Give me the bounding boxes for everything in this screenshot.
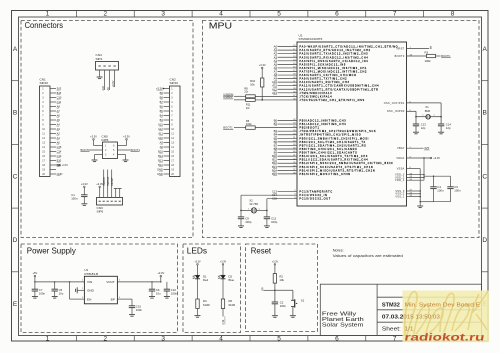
svg-text:+3.3V: +3.3V	[272, 260, 279, 263]
wire CN5 pin4	[124, 155, 126, 160]
svg-text:Min. System Dev Board E: Min. System Dev Board E	[405, 302, 481, 308]
wire VDDA to +3.3V flag	[407, 156, 441, 160]
svg-text:+3.3V: +3.3V	[111, 80, 115, 87]
svg-text:OSC_IN/PD0: OSC_IN/PD0	[387, 110, 405, 113]
svg-text:B14: B14	[158, 154, 163, 158]
svg-text:5: 5	[277, 11, 281, 18]
node +3.3V at CN2 pin 1	[163, 88, 165, 90]
wire CN3 pin4 net SWDIO2	[110, 170, 114, 198]
svg-text:2: 2	[259, 208, 260, 210]
svg-text:PB6/I2C1_SCL/TIM4_CH1/USART1_T: PB6/I2C1_SCL/TIM4_CH1/USART1_TX	[299, 141, 366, 144]
column number labels	[46, 11, 455, 343]
svg-text:VOUT: VOUT	[106, 280, 115, 284]
svg-text:10k: 10k	[250, 83, 255, 87]
svg-text:JTCK/SWCLK/PA14: JTCK/SWCLK/PA14	[299, 95, 332, 98]
svg-text:A8: A8	[160, 145, 164, 149]
svg-text:32.768: 32.768	[249, 202, 258, 206]
svg-text:12p: 12p	[446, 126, 451, 130]
wires VSS pins to ground rail	[407, 190, 421, 197]
power flag +3.3V above D1	[194, 260, 201, 275]
connector CN4 SIP4	[96, 53, 119, 70]
wire CN3 pin3 net SWCLK	[106, 170, 110, 198]
svg-text:C: C	[482, 174, 487, 181]
svg-text:A13: A13	[272, 91, 277, 95]
svg-text:PB11/I2C2_SDA/USART3_RX/TIM2_C: PB11/I2C2_SDA/USART3_RX/TIM2_CH4	[299, 159, 368, 162]
svg-text:PC15/OSC32_OUT: PC15/OSC32_OUT	[299, 198, 331, 201]
svg-text:A10: A10	[158, 136, 163, 140]
svg-text:PA12/USART1_RTS/CANTX/USBDP/TI: PA12/USART1_RTS/CANTX/USBDP/TIM1_ETR	[299, 88, 378, 91]
U2 port-C pin rows	[294, 190, 333, 200]
junction R10 to USBDP wire	[261, 99, 263, 101]
svg-text:PA5/SPI1_SCK/ADC12_IN5: PA5/SPI1_SCK/ADC12_IN5	[299, 63, 346, 66]
wire U1 EN to +5V rail	[70, 282, 85, 299]
svg-text:22r: 22r	[244, 90, 248, 94]
svg-text:PB5/I2C1_SMBAI/TIM3_CH2/SPI1_M: PB5/I2C1_SMBAI/TIM3_CH2/SPI1_MOSI	[299, 137, 369, 140]
svg-text:100n: 100n	[39, 291, 46, 295]
svg-text:A0: A0	[57, 141, 61, 145]
net label BOOT1 at CN5	[124, 148, 141, 152]
capacitor C14 12p	[438, 117, 451, 132]
title block document title	[382, 302, 481, 308]
row letter labels	[13, 46, 488, 308]
crystal X1 8M0	[416, 105, 441, 119]
svg-text:C13: C13	[221, 319, 225, 324]
svg-text:GND: GND	[157, 172, 163, 176]
svg-text:JTMS/SWDIO/PA13: JTMS/SWDIO/PA13	[299, 92, 332, 95]
wire VBAT net 3V6	[407, 146, 430, 150]
ground below C10	[164, 297, 170, 299]
svg-text:Notes:: Notes:	[333, 248, 344, 253]
net label USBDP	[223, 95, 233, 99]
wire NRST net R	[407, 45, 432, 49]
resistor R11 22r	[234, 98, 255, 109]
title block sheet	[382, 327, 414, 333]
capacitor C6 100n	[447, 176, 461, 202]
svg-text:VSS_1: VSS_1	[395, 196, 405, 199]
power flag +3.3V right of CN5	[123, 134, 130, 145]
svg-text:PB7/I2C1_SDA/TIM4_CH2/USART1_R: PB7/I2C1_SDA/TIM4_CH2/USART1_RX	[299, 144, 366, 147]
svg-text:R: R	[430, 45, 432, 49]
Power Supply section box	[21, 244, 178, 333]
svg-text:SWCLK: SWCLK	[106, 177, 110, 186]
svg-text:+3.3V: +3.3V	[157, 271, 164, 275]
ground below C6b	[149, 297, 155, 299]
ground below R4	[195, 316, 201, 318]
svg-text:B12: B12	[158, 163, 163, 167]
svg-text:MPU: MPU	[209, 22, 232, 31]
capacitor C12 100p	[264, 210, 278, 225]
svg-text:3V6: 3V6	[424, 146, 429, 150]
svg-text:Reset: Reset	[251, 246, 272, 256]
ground below C1	[81, 204, 87, 206]
net label BOOT1	[223, 126, 233, 130]
capacitor C5 10u	[52, 282, 64, 296]
svg-text:+3.3V: +3.3V	[194, 260, 201, 263]
svg-text:PB13/SPI2_SCK/USART3_CTS/TIM1_: PB13/SPI2_SCK/USART3_CTS/TIM1_CH1N	[299, 166, 373, 169]
svg-text:100n: 100n	[171, 291, 178, 295]
connector CN3 SIP6	[97, 198, 123, 214]
wire CN4 pin1 to ground	[99, 70, 101, 77]
connector CN1 SIP20	[40, 78, 63, 177]
svg-text:Values of capacitors are estim: Values of capacitors are estimated	[333, 253, 403, 258]
wire reset node to S1	[275, 290, 293, 300]
wire VDD rail to decoupling caps	[424, 176, 451, 177]
capacitor C9 100p	[238, 210, 252, 225]
svg-text:PB1/ADC12_IN9/TIM3_CH4: PB1/ADC12_IN9/TIM3_CH4	[299, 123, 346, 126]
resistor R2 10k	[273, 274, 284, 291]
svg-text:12p: 12p	[421, 126, 426, 130]
watermark logo strokes	[405, 291, 488, 335]
title block project name	[322, 311, 364, 328]
svg-text:100p: 100p	[245, 220, 252, 224]
svg-text:6: 6	[335, 11, 339, 18]
svg-text:BP: BP	[111, 298, 115, 302]
wire OSC_OUT to X1 right	[407, 103, 442, 117]
svg-text:STM32: STM32	[382, 302, 400, 308]
svg-text:A: A	[13, 46, 18, 53]
wire caps to ground rail	[420, 201, 451, 202]
title block date	[382, 315, 440, 321]
svg-text:B15: B15	[272, 172, 277, 176]
wire U1 BP to C15	[117, 299, 132, 306]
wire CN4 pin2 net A10	[101, 70, 105, 91]
svg-text:B: B	[483, 110, 487, 117]
svg-text:RT8183-B: RT8183-B	[84, 272, 98, 276]
svg-text:PA8/USART1_CK/TIM1_CH1/MCO: PA8/USART1_CK/TIM1_CH1/MCO	[299, 74, 356, 77]
wire PC15 to X2 right	[267, 197, 297, 211]
svg-text:PB10/I2C2_SCL/USART3_TX/TIM2_C: PB10/I2C2_SCL/USART3_TX/TIM2_CH3	[299, 155, 368, 158]
power flag +5V input	[33, 271, 38, 289]
svg-text:Red: Red	[203, 278, 209, 282]
svg-text:100n: 100n	[454, 188, 461, 192]
svg-text:A: A	[483, 46, 488, 53]
capacitor C2 100n	[272, 290, 287, 315]
wires VDD pins to +3.3V rail	[407, 158, 425, 180]
svg-text:PA2/USART2_TX/ADC12_IN2/TIM2_C: PA2/USART2_TX/ADC12_IN2/TIM2_CH3	[299, 53, 368, 56]
Reset section box	[246, 244, 318, 332]
svg-text:STM32F103C8T6: STM32F103C8T6	[299, 37, 323, 41]
capacitor C6b 10u	[149, 282, 161, 296]
svg-text:VDDA: VDDA	[396, 157, 404, 160]
svg-text:B: B	[13, 110, 17, 117]
ground at U1 GND	[76, 287, 78, 293]
wire VSSA to ground rail	[407, 169, 421, 206]
svg-text:VSSA: VSSA	[397, 168, 405, 171]
net label R at reset node	[262, 286, 275, 290]
svg-text:Blue: Blue	[229, 278, 235, 282]
svg-text:07.03.2: 07.03.2	[382, 315, 404, 321]
wire CN4 pin4 +3.3V	[111, 70, 115, 88]
ground below C13	[413, 132, 419, 134]
svg-text:A9: A9	[160, 141, 164, 145]
power flag +3.3V above R10	[259, 63, 266, 78]
svg-text:A12: A12	[158, 127, 163, 131]
svg-text:100n: 100n	[280, 304, 287, 308]
ground below S1	[290, 316, 296, 318]
svg-text:C15: C15	[57, 145, 62, 149]
LEDs section box	[183, 244, 241, 333]
svg-text:PB14/SPI2_MISO/USART3_RTS/TIM1: PB14/SPI2_MISO/USART3_RTS/TIM1_CH2N	[299, 169, 375, 172]
svg-text:JNTRST/PB4/TIM3_CH1/SPI1_MISO: JNTRST/PB4/TIM3_CH1/SPI1_MISO	[299, 134, 361, 137]
svg-text:8M0: 8M0	[425, 109, 431, 113]
ground below C7	[32, 297, 38, 299]
svg-text:10k: 10k	[279, 278, 284, 282]
LED D2 Blue	[218, 275, 234, 299]
watermark background	[403, 291, 490, 343]
svg-text:D: D	[482, 237, 487, 244]
svg-text:BOOT0: BOOT0	[395, 55, 405, 58]
svg-text:BOOT0: BOOT0	[441, 54, 450, 58]
power arrow +3.3V at CN1 pin 18	[56, 164, 68, 167]
svg-text:10u: 10u	[59, 291, 64, 295]
wire U1 VOUT to +3.3V	[117, 281, 161, 282]
capacitor C1 100n	[71, 193, 87, 204]
svg-text:SWDIO: SWDIO	[102, 177, 106, 186]
svg-text:VBAT: VBAT	[397, 147, 405, 150]
U2 port-A pin rows with wires and net labels	[255, 45, 398, 102]
ground below VSS rail	[417, 206, 423, 208]
svg-text:100n: 100n	[71, 196, 78, 200]
wire OSC_IN to X1 left	[407, 111, 417, 116]
U2 port-B pin rows with wires and net labels	[272, 119, 393, 176]
regulator U1 RT8183-B	[82, 268, 121, 304]
svg-text:EN: EN	[87, 298, 91, 302]
net label C13 below R6	[221, 316, 225, 324]
svg-text:+3.3V: +3.3V	[259, 63, 266, 67]
svg-text:6: 6	[335, 336, 339, 343]
svg-text:GND: GND	[157, 168, 163, 172]
svg-text:PB15/SPI2_MOSI/TIM1_CH3N: PB15/SPI2_MOSI/TIM1_CH3N	[299, 173, 350, 176]
svg-text:BOOT1: BOOT1	[223, 126, 233, 130]
svg-text:radiokot.ru: radiokot.ru	[404, 332, 486, 343]
svg-text:E: E	[13, 301, 18, 308]
wire CN4 pin3 net A9	[106, 70, 110, 91]
svg-text:610R: 610R	[229, 303, 236, 307]
net label BOOT0 at CN5	[81, 148, 97, 152]
svg-text:1: 1	[46, 336, 50, 343]
svg-text:100n: 100n	[437, 188, 444, 192]
capacitor C10 100n	[164, 282, 178, 296]
svg-text:PB12/SPI2_NSS/I2C2_SMBAI/USART: PB12/SPI2_NSS/I2C2_SMBAI/USART3_CK/TIM1_…	[299, 162, 393, 165]
svg-text:SIP20: SIP20	[170, 81, 179, 85]
svg-text:4: 4	[219, 336, 223, 343]
svg-text:015 13:50:03: 015 13:50:03	[403, 315, 440, 321]
ground at CN5 pin4	[123, 160, 129, 162]
svg-text:8: 8	[451, 11, 455, 18]
power flag +3.3V above D2	[220, 260, 227, 275]
op IC U2 STM32F103C8T6	[297, 34, 407, 207]
svg-text:GND: GND	[87, 289, 95, 293]
svg-text:B10: B10	[57, 159, 62, 163]
svg-text:100p: 100p	[271, 220, 278, 224]
svg-text:PA10/USART1_RX/TIM1_CH3: PA10/USART1_RX/TIM1_CH3	[299, 81, 349, 84]
connector CN2 SIP20	[156, 78, 180, 177]
svg-text:3: 3	[161, 11, 165, 18]
svg-text:JTDO/PB3/TIM2_CH2/TRACESWO/SPI: JTDO/PB3/TIM2_CH2/TRACESWO/SPI1_SCK	[299, 130, 376, 133]
svg-text:B13: B13	[158, 159, 163, 163]
capacitor C13 12p	[413, 117, 426, 132]
resistor R4 610R	[196, 299, 210, 315]
power flag +3.3V at CN3 pin1	[96, 182, 103, 198]
ground below C9	[238, 226, 244, 228]
svg-text:PA6/SPI1_MISO/ADC12_IN6/TIM3_C: PA6/SPI1_MISO/ADC12_IN6/TIM3_CH1	[299, 67, 367, 70]
svg-text:7: 7	[393, 11, 397, 18]
resistor R5 100k	[234, 119, 297, 130]
row tick marks	[12, 81, 489, 272]
svg-text:GND: GND	[57, 172, 63, 176]
wire U1 GND to ground	[78, 289, 85, 291]
wire PC13 net C13	[272, 190, 297, 194]
wire PC14 to X2 left	[241, 193, 297, 210]
svg-text:Solar System: Solar System	[322, 322, 364, 328]
svg-text:A3: A3	[57, 127, 61, 131]
ground below C2	[272, 316, 278, 318]
svg-text:1: 1	[248, 208, 249, 210]
svg-text:PA0-WKUP/USART2_CTS/ADC12_IN0/: PA0-WKUP/USART2_CTS/ADC12_IN0/TIM2_CH1_E…	[299, 46, 398, 49]
svg-text:+3.3V: +3.3V	[81, 182, 88, 186]
svg-text:C: C	[13, 174, 18, 181]
svg-text:RESET: RESET	[110, 177, 114, 186]
svg-text:R3: R3	[425, 50, 429, 54]
svg-text:A11: A11	[158, 132, 163, 136]
svg-text:+5V: +5V	[33, 271, 38, 275]
LED D1 Red	[193, 275, 209, 299]
MPU section box	[203, 21, 480, 238]
svg-text:S1: S1	[301, 299, 305, 303]
svg-text:10u: 10u	[156, 291, 161, 295]
svg-text:C15: C15	[272, 197, 278, 201]
svg-text:+3.3V: +3.3V	[433, 156, 440, 160]
junction X1 left	[415, 116, 417, 118]
svg-text:100k: 100k	[425, 59, 432, 63]
connector CN5 DIP6	[97, 134, 124, 158]
svg-text:100n: 100n	[136, 308, 143, 312]
svg-text:A10: A10	[101, 85, 105, 90]
U2 right side pin names and numbers	[384, 47, 413, 198]
junction X2 right	[266, 210, 268, 212]
svg-text:610R: 610R	[203, 303, 210, 307]
svg-text:VIN: VIN	[87, 280, 92, 284]
svg-text:JTDI/PA15/TIM2_CH1_ETR/SPI1_NS: JTDI/PA15/TIM2_CH1_ETR/SPI1_NSS	[299, 99, 364, 102]
svg-text:1: 1	[46, 11, 50, 18]
svg-text:SIP6: SIP6	[97, 210, 104, 214]
svg-text:PB9/TIM4_CH4/I2C1_SDA/CANTX: PB9/TIM4_CH4/I2C1_SDA/CANTX	[299, 152, 357, 155]
svg-text:22r: 22r	[246, 106, 250, 110]
svg-text:PB2/BOOT1: PB2/BOOT1	[299, 127, 319, 130]
svg-text:PA11/USART1_CTS/CANRX/USBDM/TI: PA11/USART1_CTS/CANRX/USBDM/TIM1_CH4	[299, 85, 379, 88]
ground at CN4 pin1	[97, 77, 103, 79]
wire CN3 pin2 net SWDIO	[102, 170, 106, 198]
capacitor C4 100n	[430, 176, 444, 202]
svg-text:Connectors: Connectors	[25, 21, 63, 30]
svg-text:VDD_1: VDD_1	[395, 179, 405, 182]
svg-text:PB0/ADC12_IN8/TIM3_CH3: PB0/ADC12_IN8/TIM3_CH3	[299, 120, 346, 123]
ground below C14	[438, 132, 444, 134]
svg-text:100k: 100k	[246, 122, 252, 126]
switch S1	[291, 299, 305, 316]
wire CN5 pin3	[95, 155, 97, 160]
svg-text:DIP6: DIP6	[102, 138, 109, 142]
ground below C12	[264, 226, 270, 228]
resistor R10 10k	[250, 78, 264, 100]
svg-text:NRST: NRST	[397, 48, 405, 51]
svg-text:B15: B15	[158, 150, 163, 154]
title block frame	[320, 284, 481, 335]
wire CN3 pin5	[114, 189, 118, 198]
power flag +3.3V above C1	[81, 182, 88, 195]
svg-text:Power Supply: Power Supply	[27, 247, 77, 256]
svg-text:PB8/TIM4_CH3/I2C1_SCL/CANRX: PB8/TIM4_CH3/I2C1_SCL/CANRX	[299, 148, 357, 151]
svg-text:SIP4: SIP4	[96, 57, 103, 61]
svg-text:OSC_OUT/PD1: OSC_OUT/PD1	[384, 102, 405, 105]
svg-text:USBDP: USBDP	[223, 95, 233, 99]
svg-text:C14: C14	[57, 150, 62, 154]
note text	[333, 248, 403, 258]
ground at CN5 pin3	[92, 160, 98, 162]
power flag +3.3V output	[157, 271, 164, 282]
svg-text:+3.3V: +3.3V	[90, 134, 97, 138]
svg-text:4: 4	[219, 11, 223, 18]
svg-text:PA3/USART2_RX/ADC12_IN3/TIM2_C: PA3/USART2_RX/ADC12_IN3/TIM2_CH4	[299, 56, 368, 59]
capacitor C15 100n	[129, 304, 143, 314]
svg-text:C13: C13	[57, 154, 62, 158]
svg-text:+3.3V: +3.3V	[220, 260, 227, 263]
svg-text:PA9/USART1_TX/TIM1_CH2: PA9/USART1_TX/TIM1_CH2	[299, 78, 347, 81]
svg-text:A2: A2	[57, 132, 61, 136]
crystal X2 32.768	[241, 199, 267, 214]
Connectors section box	[21, 21, 193, 238]
net label USBDM	[223, 92, 234, 96]
svg-text:PA4/SPI1_NSS/USART2_CK/ADC12_I: PA4/SPI1_NSS/USART2_CK/ADC12_IN4	[299, 60, 368, 63]
svg-text:LEDs: LEDs	[187, 246, 207, 256]
wire CN3 pin6	[118, 189, 122, 198]
svg-text:R5: R5	[246, 119, 250, 123]
resistor R3 100k	[407, 50, 441, 62]
wire +5V rail to U1 VIN	[34, 281, 84, 282]
resistor R6 610R	[221, 299, 235, 317]
svg-text:5: 5	[277, 336, 281, 343]
svg-text:SIP20: SIP20	[40, 81, 49, 85]
svg-text:PA7/SPI1_MOSI/ADC12_IN7/TIM3_C: PA7/SPI1_MOSI/ADC12_IN7/TIM3_CH2	[299, 70, 367, 73]
svg-text:A1: A1	[57, 136, 61, 140]
svg-text:2: 2	[103, 11, 107, 18]
svg-text:Sheet:: Sheet:	[382, 327, 401, 333]
resistor R8 22r	[234, 87, 255, 98]
junction X2 left	[240, 210, 242, 212]
capacitor C7 100n	[32, 288, 46, 296]
svg-text:3: 3	[161, 336, 165, 343]
ground below C15	[129, 315, 135, 317]
svg-text:PA1/USART2_RTS/ADC12_IN1/TIM2_: PA1/USART2_RTS/ADC12_IN1/TIM2_CH2	[299, 49, 370, 52]
svg-text:B1: B1	[274, 122, 278, 126]
ground below C5	[52, 297, 58, 299]
svg-text:2: 2	[103, 336, 107, 343]
svg-text:R: R	[262, 286, 264, 290]
svg-text:D: D	[13, 237, 18, 244]
net label BOOT0	[441, 54, 451, 58]
power flag +3.3V left of CN5	[90, 134, 97, 145]
svg-text:+3.3V: +3.3V	[123, 134, 130, 138]
svg-text:7: 7	[393, 336, 397, 343]
junction reset node	[274, 290, 276, 292]
junction X1 right	[440, 116, 442, 118]
svg-text:+3.3V: +3.3V	[62, 165, 69, 167]
svg-text:A9: A9	[106, 87, 110, 91]
column tick marks	[76, 11, 423, 342]
power flag +3.3V above R2	[272, 260, 279, 273]
